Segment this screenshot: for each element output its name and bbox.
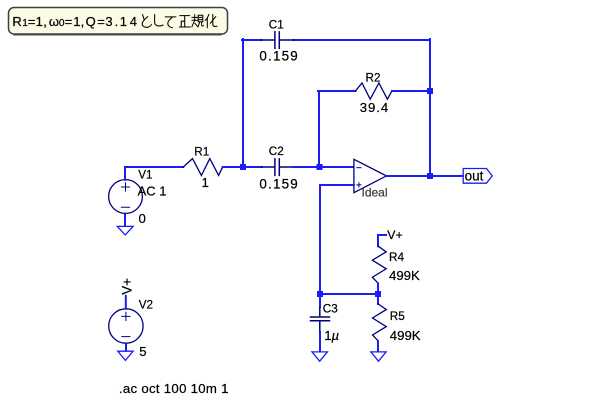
junction node output [427,173,433,179]
wire left vertical rail [242,39,244,167]
capacitor C2 [262,159,294,176]
wire V2 bottom [125,343,127,352]
svg-text:499K: 499K [389,268,420,283]
wire opamp plus input [320,185,354,294]
capacitor C1 [262,32,294,49]
junction node C3 top [317,291,323,297]
wire C3 bottom [319,331,321,353]
wire C2 right to opamp [293,166,354,168]
svg-text:R4: R4 [389,251,404,264]
kanji KI [192,15,204,27]
wire V1 top [125,167,183,180]
kanji SEI [179,16,190,27]
junction node R2-C1 right rail [427,88,433,94]
svg-text:1µ: 1µ [324,328,339,343]
svg-text:5: 5 [139,344,146,359]
resistor R4 [372,246,386,283]
wire V1 bottom [124,213,126,227]
svg-text:499K: 499K [390,328,421,343]
wire R2 left lead [318,90,356,92]
svg-text:R5: R5 [390,310,405,323]
svg-text:0.159: 0.159 [259,48,299,63]
svg-text:R2: R2 [366,72,381,85]
svg-text:V+: V+ [387,228,402,242]
resistor R2 [356,83,392,99]
wire right vertical rail [429,39,431,176]
comment box [9,8,228,35]
svg-text:39.4: 39.4 [360,100,389,115]
wire C1 top row right [293,39,430,41]
svg-text:out: out [465,168,484,183]
wire R1 right [223,166,262,168]
junction node R2-C2-opamp [317,164,323,170]
svg-text:0: 0 [139,211,146,226]
kanji TE [165,17,175,28]
node V+ stub at R4 [378,235,386,246]
svg-text:C1: C1 [269,19,284,32]
resistor R1 [183,159,222,176]
wire V2 top [125,296,127,309]
wire R5 top [377,294,379,304]
svg-text:Ideal: Ideal [362,185,388,199]
out port flag [463,169,492,184]
ground V1 [117,226,133,235]
wire bottom node row [320,293,378,295]
voltage source V2 [109,309,143,343]
resistor R5 [373,304,387,341]
wire opamp output [386,175,463,177]
kanji SHI [155,15,163,26]
voltage source V1 [109,180,143,214]
wire R4 bottom [377,283,379,294]
kanji KA [205,15,217,28]
svg-text:C3: C3 [323,302,338,315]
ground C3 [312,352,327,361]
junction node R4-R5 [375,291,381,297]
wire C1 top row left [242,39,262,41]
svg-text:AC 1: AC 1 [138,183,167,198]
ground R5 [371,352,386,361]
ground V2 [118,351,133,360]
capacitor C3 [311,307,330,331]
svg-text:V1: V1 [138,168,152,181]
svg-text:V2: V2 [139,298,153,311]
svg-text:C2: C2 [269,145,284,158]
svg-text:V+: V+ [119,278,134,295]
svg-text:1: 1 [202,175,209,190]
wire R2 left vertical [318,91,320,167]
svg-text:0.159: 0.159 [259,176,299,191]
capacitor C3 wire top [319,294,321,307]
wire R5 bottom [377,341,379,353]
junction node R1-C2-C1 [240,164,246,170]
kanji TO [142,15,151,28]
svg-text:R1: R1 [194,146,209,159]
svg-text:.ac oct 100 10m 1: .ac oct 100 10m 1 [119,381,229,396]
op-amp U1 [354,159,387,192]
comment text R1=1, w0=1, Q=3.14 [12,14,137,29]
wire R2 right lead [392,90,430,92]
